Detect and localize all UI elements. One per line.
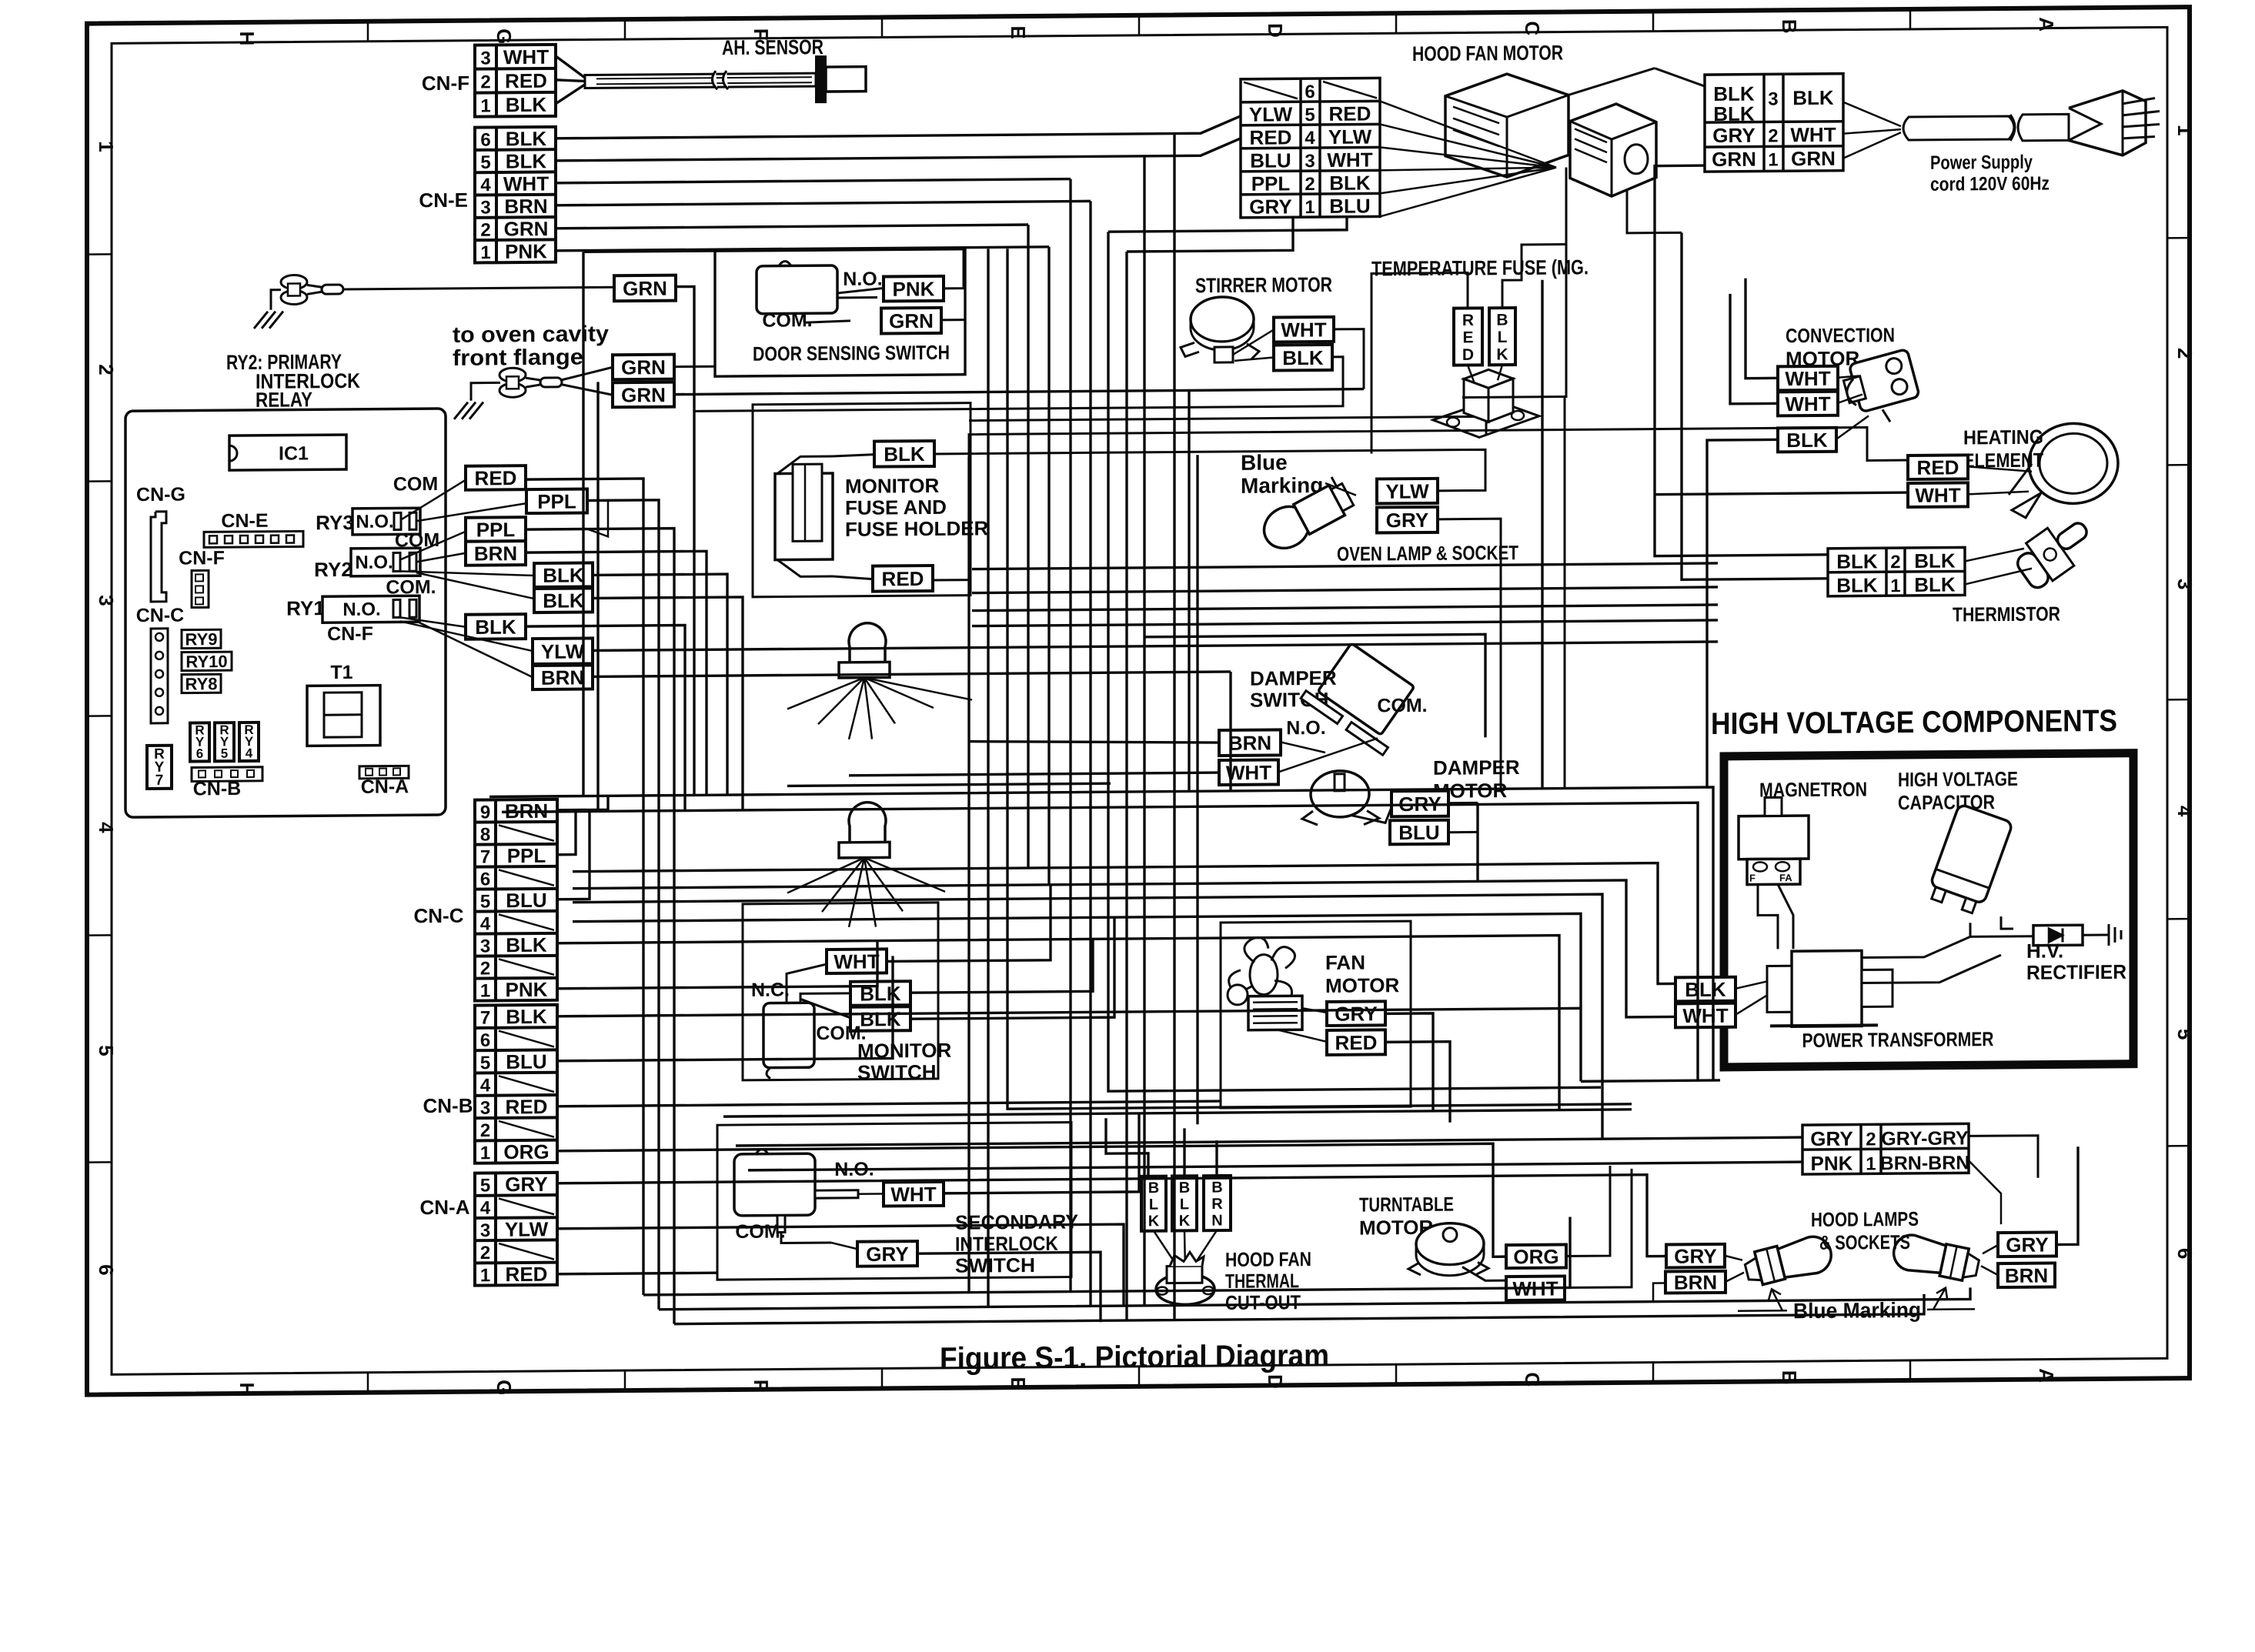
stirrer motor drawing bbox=[1191, 297, 1254, 342]
hood lamp socket right bbox=[1890, 1232, 1981, 1283]
wire trunk vertical 1440 bbox=[1108, 228, 1601, 1091]
wire GRY right bbox=[1438, 519, 1501, 789]
svg-text:CN-A: CN-A bbox=[361, 776, 409, 797]
svg-text:HOOD FAN MOTOR: HOOD FAN MOTOR bbox=[1412, 42, 1563, 66]
wire GRN door switch loop bbox=[941, 319, 965, 321]
svg-text:N.O.: N.O. bbox=[1286, 717, 1325, 739]
svg-text:3: 3 bbox=[480, 1098, 490, 1119]
magnetron drawing bbox=[1739, 816, 1809, 859]
svg-text:B: B bbox=[1148, 1180, 1159, 1196]
wire riser 758 bbox=[582, 252, 584, 796]
secondary interlock enclosure bbox=[717, 1123, 1071, 1280]
svg-text:4: 4 bbox=[480, 1198, 491, 1219]
wire horizontal bus A2 bbox=[502, 803, 1698, 1090]
wire convection BLK left bbox=[1707, 439, 1778, 787]
wire long horizontal 828 bbox=[1144, 634, 1485, 739]
svg-text:& SOCKETS: & SOCKETS bbox=[1819, 1230, 1910, 1254]
wire label RED monitor fuse bbox=[873, 566, 933, 592]
svg-text:GRY: GRY bbox=[2006, 1233, 2048, 1256]
wire hood fan long drop bbox=[1462, 168, 1566, 398]
transformer T1 bbox=[307, 686, 380, 746]
relay RY6 bbox=[190, 723, 209, 761]
wire label RED fan motor bbox=[1327, 1030, 1385, 1055]
relay RY9 bbox=[182, 629, 221, 649]
svg-text:H.V.: H.V. bbox=[2026, 939, 2063, 962]
wire CN-E row5 to 6-pin table bbox=[556, 139, 1241, 161]
svg-text:COM: COM bbox=[393, 473, 438, 495]
wire trunk vertical 1464 bbox=[1125, 252, 1127, 1320]
wire trunk vertical 1526 bbox=[1173, 134, 1175, 1320]
svg-text:PPL: PPL bbox=[1251, 172, 1291, 195]
svg-text:G: G bbox=[493, 1380, 516, 1395]
wire label ORG turntable bbox=[1506, 1245, 1566, 1269]
svg-text:FUSE HOLDER: FUSE HOLDER bbox=[845, 516, 989, 540]
svg-text:RED: RED bbox=[1329, 102, 1371, 125]
wire horizontal bus D2 bbox=[659, 1287, 1970, 1309]
hood fan thermal cutout drawing bbox=[1156, 1273, 1214, 1305]
svg-text:D: D bbox=[1264, 23, 1287, 38]
wire label BLK pair upper bbox=[534, 562, 593, 587]
svg-text:PNK: PNK bbox=[505, 239, 547, 262]
fan motor drawing bbox=[1250, 954, 1278, 994]
svg-text:CN-E: CN-E bbox=[221, 510, 268, 532]
svg-text:5: 5 bbox=[480, 1175, 490, 1196]
svg-text:WHT: WHT bbox=[503, 172, 549, 195]
svg-text:5: 5 bbox=[95, 1045, 118, 1056]
connector CN-G bbox=[151, 512, 166, 602]
svg-text:PPL: PPL bbox=[476, 518, 516, 541]
svg-text:BLU: BLU bbox=[1250, 149, 1291, 172]
monitor switch wires to WHT bbox=[787, 964, 827, 1003]
svg-text:WHT: WHT bbox=[503, 45, 549, 68]
svg-text:BLU: BLU bbox=[506, 1050, 546, 1073]
wire CN-C BLU row bbox=[557, 811, 590, 899]
monitor fuse enclosure bbox=[753, 403, 970, 597]
wire turntable to right bbox=[1566, 1166, 1610, 1256]
wire horizontal bus C2 bbox=[736, 1137, 1802, 1146]
wire damper motor out bbox=[1476, 803, 1478, 881]
wire label WHT damper bbox=[1219, 759, 1278, 785]
wire CN-A RED row bbox=[557, 1273, 717, 1274]
wire label BLK transformer bbox=[1675, 977, 1736, 1002]
wire label GRY fan motor bbox=[1327, 1001, 1385, 1026]
svg-text:8: 8 bbox=[480, 824, 490, 845]
turntable motor drawing bbox=[1416, 1223, 1484, 1265]
wire label BLK vertical 1 bbox=[1141, 1176, 1166, 1231]
svg-text:WHT: WHT bbox=[1281, 318, 1326, 341]
svg-text:GRN: GRN bbox=[1791, 147, 1836, 170]
damper switch contacts bbox=[1301, 691, 1388, 756]
wire label WHT monitor switch bbox=[827, 949, 887, 973]
svg-text:BLK: BLK bbox=[506, 933, 547, 956]
PCB board outline bbox=[125, 409, 446, 817]
svg-text:7: 7 bbox=[155, 773, 164, 789]
svg-text:MONITOR: MONITOR bbox=[845, 474, 940, 498]
ground symbol 2 bbox=[454, 402, 468, 419]
wire capacitor to rectifier bbox=[1970, 923, 2033, 937]
svg-text:YLW: YLW bbox=[1385, 479, 1429, 502]
svg-text:6: 6 bbox=[1305, 82, 1315, 102]
wire CN-C PNK row bbox=[557, 941, 877, 989]
wire CN-B ORG row bbox=[557, 1143, 1506, 1264]
wire lug2 fork to GRN boxes bbox=[562, 367, 613, 380]
wire horizontal bus D1 bbox=[643, 1216, 1570, 1294]
svg-text:B: B bbox=[1778, 19, 1801, 34]
wire label BLK monitor 2 bbox=[850, 1006, 910, 1031]
svg-text:5: 5 bbox=[480, 152, 490, 173]
connector hood-fan 6-pin table bbox=[1241, 78, 1380, 217]
svg-text:CN-F: CN-F bbox=[422, 72, 469, 95]
wire hood fan motor to power table bbox=[1568, 68, 1655, 95]
svg-text:N.O.: N.O. bbox=[843, 268, 882, 289]
wire CN-E row4 trunk bbox=[556, 179, 1071, 183]
wire hood lamp connections bbox=[1725, 1256, 1742, 1260]
wire relay RED out bbox=[526, 479, 643, 1296]
power plug bbox=[2069, 91, 2146, 156]
wire fan from bulb 1 bbox=[787, 678, 864, 709]
monitor fuse holder drawing bbox=[775, 473, 833, 560]
wire mid horizontal 1018 bbox=[787, 783, 1111, 786]
svg-text:BLK: BLK bbox=[884, 442, 925, 466]
svg-text:5: 5 bbox=[2173, 1029, 2197, 1040]
svg-text:B: B bbox=[1778, 1370, 1801, 1385]
secondary interlock switch body bbox=[734, 1153, 815, 1216]
svg-text:3: 3 bbox=[1768, 88, 1778, 109]
wire label GRY secondary bbox=[857, 1241, 917, 1267]
svg-text:YLW: YLW bbox=[505, 1217, 549, 1240]
svg-text:BLK: BLK bbox=[1282, 346, 1324, 369]
svg-text:N.C.: N.C. bbox=[751, 979, 790, 1000]
svg-text:MOTOR: MOTOR bbox=[1325, 973, 1400, 997]
wire monitor BLK1 up bbox=[910, 939, 1093, 993]
svg-text:2: 2 bbox=[1305, 174, 1315, 195]
svg-text:RED: RED bbox=[506, 1263, 548, 1286]
wire trunk vertical 1599 bbox=[1229, 672, 1231, 791]
svg-text:D: D bbox=[1462, 346, 1474, 364]
wire damper motor boxes bbox=[1448, 802, 1478, 804]
svg-text:1: 1 bbox=[480, 1143, 490, 1163]
svg-text:3: 3 bbox=[1305, 151, 1315, 172]
wire label YLW relay bbox=[533, 638, 593, 664]
wire CN-E row1 PNK trunk bbox=[556, 247, 1049, 251]
wire riser 902 bbox=[676, 286, 694, 795]
svg-text:N.O.: N.O. bbox=[342, 599, 380, 620]
svg-text:3: 3 bbox=[480, 48, 490, 68]
svg-text:POWER TRANSFORMER: POWER TRANSFORMER bbox=[1802, 1027, 1994, 1052]
svg-text:PNK: PNK bbox=[893, 277, 935, 300]
wire monitor WHT up bbox=[887, 885, 1051, 962]
wire relay YLW out bbox=[593, 642, 1718, 650]
relay RY5 bbox=[215, 723, 234, 761]
svg-text:1: 1 bbox=[480, 980, 490, 1001]
svg-text:2: 2 bbox=[480, 1243, 490, 1263]
temperature fuse body bbox=[1433, 399, 1539, 438]
relay RY8 bbox=[182, 674, 221, 693]
svg-text:RED: RED bbox=[1335, 1031, 1378, 1054]
wire ground2 to lug2 bbox=[471, 382, 500, 400]
wire hood lamp table right bbox=[1969, 1136, 2038, 1179]
hood lamp socket left bbox=[1742, 1233, 1835, 1290]
svg-text:to oven cavity: to oven cavity bbox=[453, 322, 609, 348]
svg-text:GRY-GRY: GRY-GRY bbox=[1881, 1127, 1969, 1150]
svg-text:OVEN LAMP & SOCKET: OVEN LAMP & SOCKET bbox=[1337, 541, 1518, 566]
svg-text:2: 2 bbox=[95, 364, 118, 375]
svg-text:BLK: BLK bbox=[475, 616, 516, 639]
svg-text:CN-F: CN-F bbox=[327, 623, 373, 645]
svg-text:9: 9 bbox=[480, 802, 490, 823]
svg-text:4: 4 bbox=[1305, 128, 1315, 149]
svg-text:H: H bbox=[236, 1382, 259, 1397]
wire heating WHT left bbox=[1655, 492, 1908, 495]
svg-text:DOOR SENSING SWITCH: DOOR SENSING SWITCH bbox=[753, 341, 950, 365]
svg-text:6: 6 bbox=[480, 869, 490, 889]
svg-text:4: 4 bbox=[480, 175, 491, 195]
svg-text:FA: FA bbox=[1779, 872, 1792, 883]
svg-text:CN-E: CN-E bbox=[419, 189, 468, 212]
svg-text:BLK: BLK bbox=[1792, 86, 1834, 109]
wire damper BRN feed bbox=[969, 739, 1219, 745]
svg-text:WHT: WHT bbox=[890, 1183, 936, 1206]
AH sensor connector bbox=[816, 56, 826, 102]
svg-text:SECONDARY: SECONDARY bbox=[955, 1210, 1078, 1233]
svg-text:2: 2 bbox=[1890, 552, 1900, 572]
wire label WHT stirrer bbox=[1274, 317, 1334, 342]
svg-text:RY2: RY2 bbox=[314, 558, 352, 581]
svg-text:AH. SENSOR: AH. SENSOR bbox=[722, 35, 823, 59]
wire trunk vertical 1284 bbox=[987, 249, 989, 1307]
svg-text:B: B bbox=[1496, 312, 1508, 329]
wire RY1 to BLK bbox=[400, 617, 466, 628]
relay RY7 bbox=[147, 746, 172, 789]
rectifier ground bbox=[2083, 933, 2109, 936]
svg-text:GRY: GRY bbox=[505, 1173, 547, 1196]
wire label GRN oven cavity 2 bbox=[613, 355, 674, 380]
wire RY2 to BRN bbox=[416, 553, 466, 562]
wire label BLK temp fuse vertical bbox=[1489, 308, 1515, 365]
svg-text:R: R bbox=[1211, 1196, 1223, 1213]
svg-text:L: L bbox=[1180, 1196, 1189, 1213]
svg-text:YLW: YLW bbox=[541, 639, 585, 662]
svg-text:3: 3 bbox=[480, 1220, 490, 1241]
svg-text:BLK: BLK bbox=[506, 149, 547, 172]
secondary COM contact bbox=[777, 1215, 785, 1232]
door switch N.O. contact bbox=[837, 288, 884, 292]
svg-text:FUSE AND: FUSE AND bbox=[845, 496, 947, 519]
convection motor drawing bbox=[1840, 349, 1919, 415]
svg-text:BRN: BRN bbox=[1674, 1270, 1717, 1293]
svg-text:GRN: GRN bbox=[1712, 148, 1756, 171]
power supply cord bbox=[1903, 116, 2014, 140]
wire horizontal bus D3 bbox=[674, 1294, 1924, 1324]
svg-text:GRN: GRN bbox=[889, 309, 934, 332]
wire fan 6-pin to hood fan motor bbox=[1380, 100, 1556, 169]
svg-text:DAMPER: DAMPER bbox=[1433, 756, 1520, 779]
svg-text:SWITCH: SWITCH bbox=[857, 1060, 937, 1084]
wire riser 777 bbox=[596, 382, 599, 811]
monitor switch body bbox=[763, 1003, 814, 1068]
wire trunk vertical 1309 bbox=[1007, 244, 1632, 1109]
svg-text:2: 2 bbox=[1768, 125, 1778, 146]
door sensing switch enclosure bbox=[715, 249, 965, 377]
svg-text:CN-B: CN-B bbox=[423, 1094, 473, 1118]
wire relay BLK1 out bbox=[593, 574, 727, 796]
wire temp fuse pins bbox=[1468, 365, 1475, 383]
wire label BLK pair lower bbox=[534, 588, 593, 612]
svg-text:BLK: BLK bbox=[1786, 429, 1828, 452]
svg-text:GRY: GRY bbox=[1386, 509, 1428, 532]
wire trunk vertical 1336 bbox=[1027, 225, 1029, 868]
IC1 chip bbox=[229, 435, 346, 470]
wire CN-B RED row bbox=[557, 1101, 1221, 1106]
svg-text:BLK: BLK bbox=[1836, 549, 1878, 572]
svg-text:Power Supply: Power Supply bbox=[1930, 152, 2033, 174]
wire riser 1545 bbox=[674, 389, 1364, 395]
svg-text:RY10: RY10 bbox=[185, 652, 227, 671]
wire label RED heating bbox=[1908, 455, 1968, 479]
wire label BRN relay2 bbox=[533, 665, 593, 689]
svg-text:TEMPERATURE FUSE (MG.: TEMPERATURE FUSE (MG. bbox=[1371, 255, 1589, 280]
wire stirrer to boxes bbox=[1233, 330, 1274, 355]
wire relay BLK2 out bbox=[593, 597, 743, 812]
svg-text:1: 1 bbox=[480, 1265, 490, 1286]
wire YLW long run to monitor fuse BLK bbox=[934, 449, 1485, 495]
wire magnetron to transformer bbox=[1758, 884, 1778, 949]
wire label BLK relay single bbox=[466, 614, 526, 639]
svg-text:BLU: BLU bbox=[506, 889, 546, 912]
svg-text:N: N bbox=[1211, 1213, 1222, 1230]
svg-text:WHT: WHT bbox=[1682, 1004, 1728, 1027]
connector CN-A on PCB bbox=[359, 766, 409, 779]
wire hood fan drop bbox=[1627, 189, 1682, 233]
wire GRN2 to door enclosure bbox=[674, 365, 715, 368]
svg-text:GRN: GRN bbox=[504, 217, 549, 240]
wire below HV box bbox=[1581, 1080, 1720, 1081]
svg-text:WHT: WHT bbox=[1790, 123, 1836, 146]
connector CN-C on PCB bbox=[151, 629, 168, 723]
relay RY2 contact box bbox=[351, 548, 420, 576]
svg-text:COM.: COM. bbox=[1377, 695, 1427, 717]
wire hood fan to thermistor row1 bbox=[1682, 232, 1828, 579]
wire long horizontal 544 bbox=[969, 416, 1486, 438]
wire power GRN left bbox=[1655, 165, 1828, 556]
svg-text:6: 6 bbox=[2173, 1248, 2197, 1260]
svg-text:3: 3 bbox=[480, 197, 490, 218]
svg-text:K: K bbox=[1148, 1213, 1160, 1230]
wire label WHT heating bbox=[1908, 482, 1968, 507]
svg-text:BRN: BRN bbox=[474, 542, 517, 565]
svg-text:4: 4 bbox=[2173, 806, 2197, 817]
wire horizontal bus C1 bbox=[723, 1110, 1632, 1116]
wire secondary GRY down bbox=[917, 1252, 1101, 1323]
svg-text:1: 1 bbox=[1866, 1153, 1876, 1174]
svg-text:RED: RED bbox=[506, 1095, 548, 1118]
svg-text:BRN: BRN bbox=[504, 195, 547, 218]
wire label WHT transformer bbox=[1675, 1003, 1736, 1028]
wire label WHT secondary bbox=[884, 1182, 944, 1206]
fan motor enclosure bbox=[1221, 921, 1411, 1108]
svg-text:G: G bbox=[493, 28, 516, 44]
svg-text:K: K bbox=[1179, 1213, 1191, 1230]
oven lamp bulb symbol 2 bbox=[849, 803, 886, 845]
svg-text:1: 1 bbox=[95, 141, 118, 152]
svg-text:2: 2 bbox=[480, 220, 490, 241]
wire lug1 to GRN bbox=[343, 287, 614, 289]
svg-text:4: 4 bbox=[480, 913, 491, 934]
svg-text:BLK: BLK bbox=[1329, 172, 1371, 195]
svg-text:CN-G: CN-G bbox=[136, 484, 185, 506]
svg-text:CN-B: CN-B bbox=[193, 778, 241, 799]
wire door enclosure top extension bbox=[583, 251, 715, 252]
oven lamp socket drawing bbox=[1255, 474, 1357, 556]
wire long horizontal 738 bbox=[972, 563, 1718, 569]
wire label BRN relay bbox=[466, 541, 526, 566]
connector CN-A table bbox=[475, 1173, 557, 1287]
svg-text:T1: T1 bbox=[330, 662, 352, 683]
wire label PPL relay upper bbox=[526, 489, 587, 514]
AH sensor rod break mark bbox=[712, 71, 728, 89]
svg-text:COM: COM bbox=[395, 529, 439, 551]
wire convection boxes to motor bbox=[1838, 376, 1859, 378]
svg-text:6: 6 bbox=[95, 1264, 118, 1276]
border inner frame bbox=[112, 27, 2167, 1374]
svg-text:RED: RED bbox=[1917, 456, 1959, 479]
svg-text:HOOD LAMPS: HOOD LAMPS bbox=[1811, 1207, 1919, 1231]
door switch COM contact bbox=[803, 313, 806, 322]
svg-text:4: 4 bbox=[95, 822, 118, 833]
wire RED monitor fuse long run bbox=[933, 427, 1908, 580]
wire damper contacts bbox=[1281, 742, 1325, 753]
svg-text:1: 1 bbox=[1890, 576, 1900, 596]
svg-text:GRY: GRY bbox=[1335, 1002, 1377, 1025]
wire relay PPL2 out bbox=[526, 529, 674, 1326]
svg-text:1: 1 bbox=[2173, 125, 2197, 136]
connector CN-B table bbox=[475, 1005, 557, 1164]
svg-text:IC1: IC1 bbox=[279, 442, 309, 464]
svg-text:GRN: GRN bbox=[621, 383, 666, 406]
svg-text:FAN: FAN bbox=[1325, 951, 1365, 974]
svg-text:A: A bbox=[2035, 17, 2058, 32]
wire label PPL relay lower bbox=[466, 517, 526, 542]
wire ground1 to lug1 bbox=[271, 290, 281, 310]
wire label BRN hood lamp left bbox=[1665, 1270, 1725, 1294]
svg-text:cord 120V 60Hz: cord 120V 60Hz bbox=[1930, 173, 2050, 195]
svg-text:YLW: YLW bbox=[1328, 125, 1372, 148]
wire trunk vertical 1259 bbox=[967, 457, 970, 1293]
svg-text:3: 3 bbox=[480, 936, 490, 956]
svg-text:Blue: Blue bbox=[1241, 450, 1288, 474]
wire PNK to right and up bbox=[944, 249, 964, 289]
svg-text:ORG: ORG bbox=[503, 1140, 549, 1163]
svg-text:F: F bbox=[1749, 873, 1756, 884]
wire 6pin drop B bbox=[1127, 217, 1293, 252]
svg-text:Blue Marking: Blue Marking bbox=[1793, 1298, 1921, 1323]
svg-text:CN-F: CN-F bbox=[179, 547, 225, 569]
svg-text:GRY: GRY bbox=[1810, 1127, 1852, 1150]
border tick marks top/bottom bbox=[367, 22, 369, 42]
ground terminal lug 2 bbox=[499, 368, 526, 382]
svg-text:N.O.: N.O. bbox=[356, 511, 393, 532]
wire thermistor to table bbox=[1965, 549, 2024, 562]
wire trunk vertical 1417 bbox=[1089, 201, 1091, 1306]
wire CN-E row2 GRN trunk bbox=[556, 225, 1028, 229]
svg-text:BLK: BLK bbox=[1914, 573, 1956, 596]
svg-text:BRN: BRN bbox=[1228, 731, 1271, 754]
relay RY4 bbox=[239, 723, 259, 761]
wire vertical 2004 bbox=[1541, 280, 1543, 789]
svg-text:BLK: BLK bbox=[1836, 573, 1878, 596]
svg-text:RY3: RY3 bbox=[316, 511, 354, 534]
svg-text:7: 7 bbox=[480, 1008, 490, 1029]
